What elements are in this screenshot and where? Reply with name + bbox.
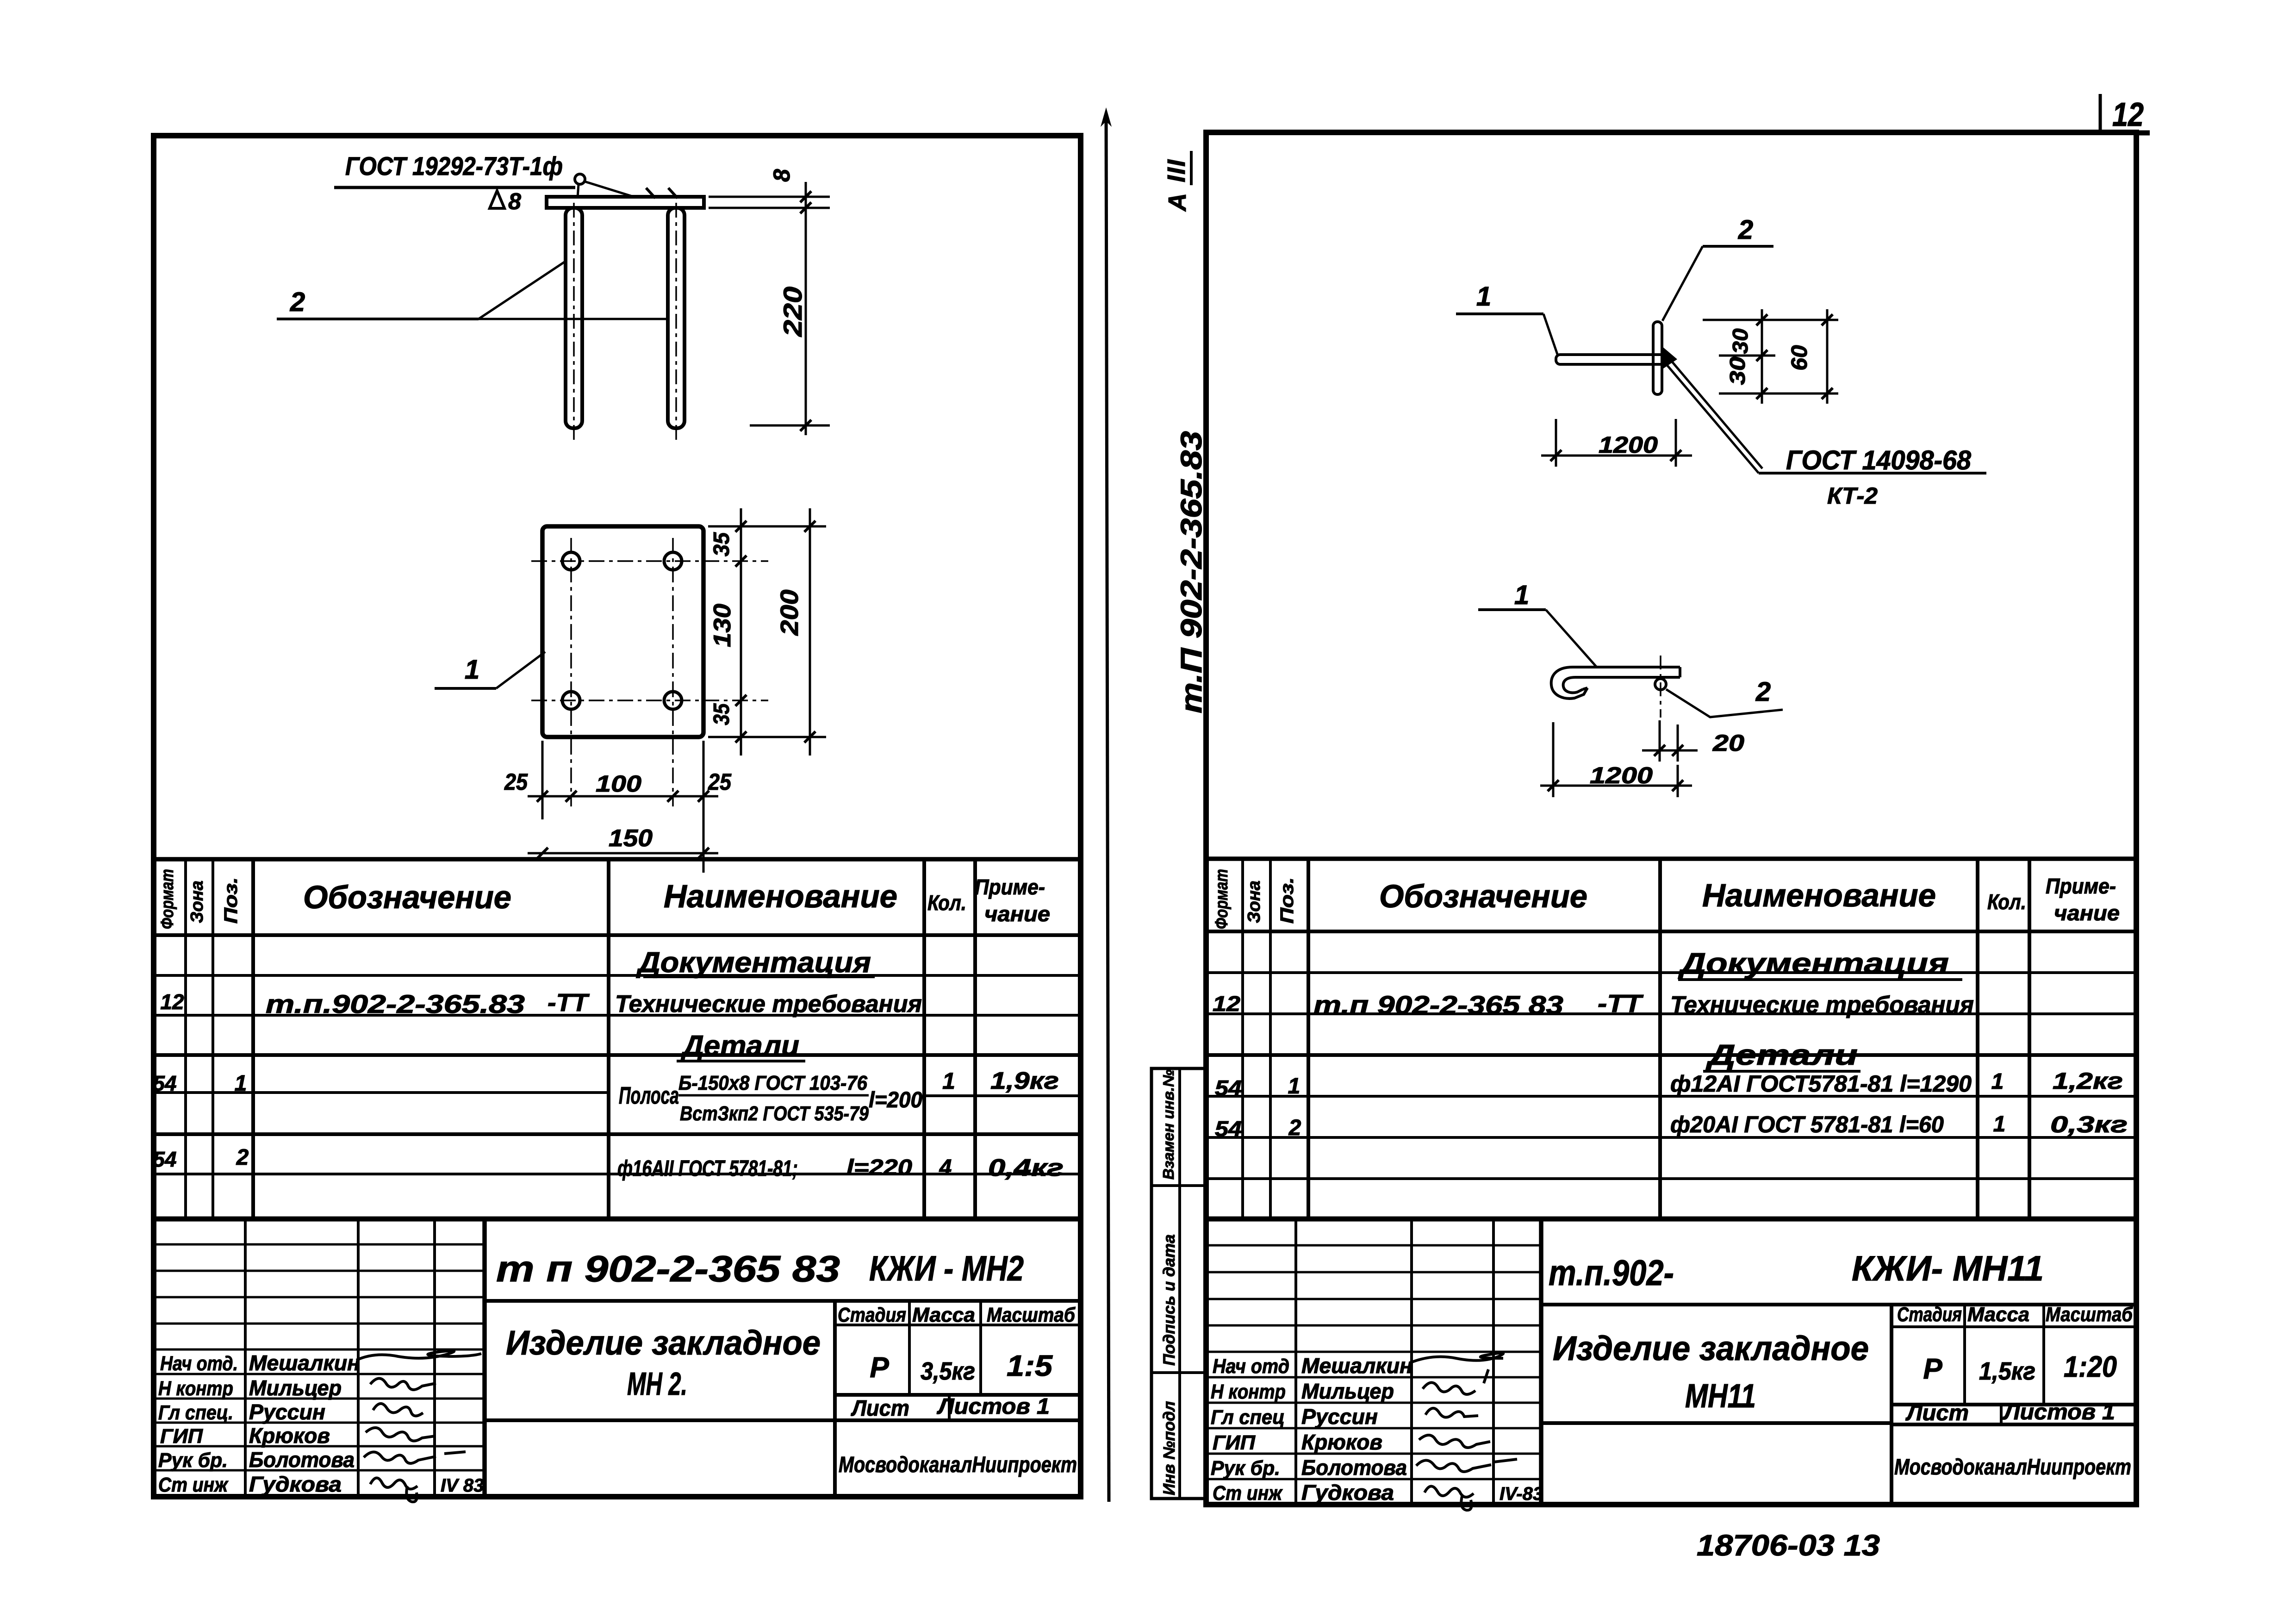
svg-text:Технические требования: Технические требования <box>615 991 922 1018</box>
svg-text:1: 1 <box>1288 1074 1300 1099</box>
dim ticks <box>800 191 811 202</box>
label 2 leader polyline <box>1666 689 1783 717</box>
svg-text:IV-83: IV-83 <box>1500 1484 1543 1504</box>
svg-text:Формат: Формат <box>158 869 177 929</box>
hook tip cap <box>1583 688 1587 689</box>
svg-text:Гудкова: Гудкова <box>1301 1480 1394 1505</box>
stadia header bottom <box>1892 1325 2136 1328</box>
svg-text:0,4кг: 0,4кг <box>988 1155 1064 1181</box>
signature label row lines <box>1206 1376 1541 1379</box>
svg-text:Нач отд: Нач отд <box>1213 1355 1289 1378</box>
plan bottom edge extension <box>708 736 826 738</box>
svg-text:Крюков: Крюков <box>1301 1430 1382 1454</box>
dim line 1200 <box>1540 785 1692 787</box>
anchor rod item 2 (left) <box>566 208 582 428</box>
svg-text:т.п 902-2-365 83: т.п 902-2-365 83 <box>1313 990 1563 1019</box>
svg-text:54: 54 <box>153 1147 176 1171</box>
svg-text:т п 902-2-365 83: т п 902-2-365 83 <box>496 1248 840 1289</box>
svg-text:1: 1 <box>1991 1069 2004 1094</box>
rod item 1 horizontal <box>1556 355 1664 364</box>
svg-text:30: 30 <box>1728 328 1752 354</box>
item 2 centerline <box>1660 656 1661 718</box>
label 2 leader <box>1662 246 1703 321</box>
signature scribbles <box>1410 1353 1503 1363</box>
svg-text:ГИП: ГИП <box>160 1425 203 1448</box>
plan right edge extension down <box>703 741 705 873</box>
svg-text:1,9кг: 1,9кг <box>990 1068 1059 1094</box>
svg-text:КЖИ- МН11: КЖИ- МН11 <box>1852 1249 2044 1288</box>
spec table verticals <box>184 859 187 1219</box>
signature upper row lines <box>1206 1244 1541 1247</box>
stadia values bottom <box>1892 1403 2136 1406</box>
label 1 underline <box>1456 312 1543 315</box>
svg-text:Обозначение: Обозначение <box>1379 878 1587 914</box>
anchor rod item 2 (right) <box>668 208 684 428</box>
plan top edge extension <box>708 525 826 528</box>
svg-text:12: 12 <box>1213 992 1240 1016</box>
svg-text:ГОСТ 14098-68: ГОСТ 14098-68 <box>1786 445 1972 475</box>
svg-text:Стадия: Стадия <box>1897 1303 1962 1326</box>
svg-text:МН11: МН11 <box>1685 1378 1756 1415</box>
svg-text:МосводоканалНиипроект: МосводоканалНиипроект <box>839 1453 1077 1477</box>
svg-text:20: 20 <box>1712 730 1744 756</box>
sheet frame right <box>1206 132 2136 1505</box>
anchor left centerline <box>573 203 575 441</box>
svg-text:1200: 1200 <box>1599 432 1658 458</box>
svg-text:Приме-: Приме- <box>975 875 1045 899</box>
rotated mark A III <box>1163 151 1191 212</box>
hole top-left <box>562 552 580 570</box>
ticks 1200 <box>1548 780 1559 791</box>
stadia table divider vertical <box>833 1301 837 1497</box>
plate item 1 plan <box>542 526 703 737</box>
signature table upper row lines <box>154 1243 485 1246</box>
svg-text:Гл спец: Гл спец <box>1211 1406 1285 1429</box>
svg-text:Масса: Масса <box>912 1304 975 1326</box>
svg-text:Листов 1: Листов 1 <box>2003 1400 2115 1424</box>
svg-text:Болотова: Болотова <box>1301 1455 1407 1480</box>
hole bottom-right <box>664 692 682 709</box>
svg-text:Формат: Формат <box>1212 869 1232 929</box>
svg-text:Нач отд.: Нач отд. <box>160 1352 238 1375</box>
weld symbol triangle 8 <box>490 191 504 208</box>
title block top line <box>154 1217 1081 1222</box>
stadia columns <box>908 1301 911 1395</box>
dim 220 bottom extension line <box>750 425 830 427</box>
svg-text:ф20АI ГОСТ 5781-81 l=60: ф20АI ГОСТ 5781-81 l=60 <box>1670 1112 1944 1137</box>
svg-text:Стадия: Стадия <box>838 1304 906 1326</box>
plate item 1 side view <box>547 197 704 208</box>
inventory strip box <box>1151 1068 1206 1499</box>
svg-text:Кол.: Кол. <box>1987 890 2026 914</box>
svg-text:Лист: Лист <box>851 1396 909 1421</box>
svg-text:Кол.: Кол. <box>927 891 966 915</box>
weld tick marks on plate <box>646 188 655 198</box>
svg-text:1: 1 <box>465 655 479 685</box>
stadia divider vertical <box>1890 1305 1893 1505</box>
plate item 2 vertical <box>1653 322 1662 394</box>
svg-text:25: 25 <box>504 769 528 795</box>
svg-text:60: 60 <box>1787 345 1812 370</box>
svg-text:Руссин: Руссин <box>1301 1405 1378 1429</box>
dim line 200 <box>809 508 811 756</box>
svg-text:1: 1 <box>235 1071 247 1096</box>
svg-text:1: 1 <box>1476 281 1491 312</box>
svg-text:220: 220 <box>778 287 807 337</box>
svg-text:35: 35 <box>709 532 734 556</box>
svg-text:Мешалкин: Мешалкин <box>249 1351 360 1375</box>
svg-text:Зона: Зона <box>187 881 207 923</box>
svg-text:1,5кг: 1,5кг <box>1979 1357 2035 1385</box>
svg-text:ГОСТ 19292-73Т-1ф: ГОСТ 19292-73Т-1ф <box>345 151 563 181</box>
svg-text:ГИП: ГИП <box>1213 1431 1256 1454</box>
label 2 underline <box>277 318 479 320</box>
svg-text:т.п.902-: т.п.902- <box>1549 1252 1674 1293</box>
svg-text:Документация: Документация <box>1678 948 1949 980</box>
svg-text:КЖИ - МН2: КЖИ - МН2 <box>869 1249 1024 1288</box>
svg-text:Детали: Детали <box>1705 1039 1858 1071</box>
svg-text:Масштаб: Масштаб <box>987 1304 1076 1326</box>
svg-text:Зона: Зона <box>1244 881 1264 923</box>
signature table verticals <box>244 1219 247 1497</box>
svg-text:Масса: Масса <box>1967 1303 2029 1326</box>
svg-text:2: 2 <box>236 1145 249 1170</box>
svg-text:Наименование: Наименование <box>1702 877 1936 913</box>
leader circle node <box>575 174 585 184</box>
svg-text:12: 12 <box>160 990 184 1014</box>
hole bottom-left <box>562 692 580 709</box>
label 1 underline <box>435 687 496 690</box>
svg-text:III: III <box>1163 159 1190 182</box>
ticks 60 <box>1822 314 1833 325</box>
title block top line <box>1206 1217 2136 1222</box>
dim 1200 extensions <box>1552 722 1555 797</box>
svg-text:2: 2 <box>1288 1116 1301 1140</box>
svg-text:т.п.902-2-365.83: т.п.902-2-365.83 <box>266 989 525 1018</box>
svg-text:54: 54 <box>153 1071 176 1095</box>
svg-text:12: 12 <box>2112 96 2144 133</box>
svg-text:Гл спец.: Гл спец. <box>158 1401 233 1424</box>
signature verticals <box>1294 1219 1297 1505</box>
svg-text:Изделие закладное: Изделие закладное <box>1553 1329 1869 1368</box>
weld fillet <box>1662 346 1677 369</box>
svg-text:IV 83: IV 83 <box>441 1475 484 1496</box>
signature label row lines <box>154 1373 485 1375</box>
ticks on 25/100/25 <box>537 791 548 802</box>
dim line 30/30 <box>1761 309 1763 404</box>
svg-text:Рук бр.: Рук бр. <box>158 1449 228 1472</box>
centerline left holes <box>570 538 572 806</box>
svg-text:1:5: 1:5 <box>1007 1349 1053 1382</box>
svg-text:1,2кг: 1,2кг <box>2053 1068 2123 1094</box>
svg-text:-ТТ: -ТТ <box>1598 990 1644 1018</box>
spec table top line <box>154 857 1081 862</box>
svg-text:1: 1 <box>942 1068 955 1094</box>
svg-text:Обозначение: Обозначение <box>303 879 511 915</box>
centerline top holes <box>531 560 768 562</box>
svg-text:ВстЗкп2 ГОСТ 535-79: ВстЗкп2 ГОСТ 535-79 <box>680 1102 869 1125</box>
svg-text:Лист: Лист <box>1905 1401 1969 1425</box>
svg-text:0,3кг: 0,3кг <box>2050 1112 2128 1137</box>
label 2 leader to left anchor <box>479 261 566 319</box>
svg-text:8: 8 <box>508 188 521 214</box>
svg-text:Мильцер: Мильцер <box>249 1376 342 1400</box>
svg-text:54: 54 <box>1215 1117 1242 1141</box>
label 2 underline <box>1703 245 1773 248</box>
ticks on 200 <box>804 521 815 532</box>
svg-text:1:20: 1:20 <box>2064 1350 2117 1383</box>
ticks 20 <box>1654 745 1665 756</box>
svg-text:Взамен инв.№: Взамен инв.№ <box>1160 1069 1177 1180</box>
label 1 leader <box>496 652 545 688</box>
name cell bottom <box>485 1418 835 1422</box>
svg-text:Н контр: Н контр <box>1211 1380 1286 1403</box>
dim 8 extension lines <box>709 196 830 198</box>
svg-text:Изделие закладное: Изделие закладное <box>506 1324 821 1362</box>
anchor item 2 end circle <box>1655 679 1666 690</box>
svg-text:Полоса: Полоса <box>619 1082 679 1109</box>
svg-text:Инв №подл: Инв №подл <box>1160 1401 1178 1495</box>
svg-text:КТ-2: КТ-2 <box>1827 483 1878 509</box>
dim line 220 vertical <box>805 182 807 435</box>
ticks on 35/130/35 <box>735 521 747 532</box>
hole top-right <box>664 552 682 570</box>
svg-text:2: 2 <box>1755 677 1771 707</box>
ticks on 150 <box>537 848 548 859</box>
inventory strip inner vertical <box>1178 1068 1181 1499</box>
dim 30/30/60 extension bottom <box>1719 393 1838 395</box>
svg-text:Б-150х8 ГОСТ 103-76: Б-150х8 ГОСТ 103-76 <box>678 1072 867 1094</box>
svg-text:l=220: l=220 <box>846 1156 912 1180</box>
svg-text:3,5кг: 3,5кг <box>921 1357 975 1385</box>
stadia columns <box>1963 1305 1966 1405</box>
svg-text:Ст инж: Ст инж <box>158 1474 229 1496</box>
list row bottom <box>1892 1423 2136 1426</box>
spec horizontals <box>1206 930 2136 933</box>
svg-text:8: 8 <box>769 169 795 182</box>
label 1 underline <box>1478 608 1546 611</box>
hook rod item 1 outline <box>1551 667 1680 699</box>
svg-text:Р: Р <box>870 1352 889 1384</box>
svg-text:Документация: Документация <box>636 947 871 979</box>
svg-text:т.П 902-2-365.83: т.П 902-2-365.83 <box>1175 431 1208 713</box>
weld designation leader double line <box>1665 363 1759 473</box>
dim line 1200 <box>1541 455 1692 457</box>
leader underline of GOST label <box>334 186 575 189</box>
plan left edge extension down <box>541 741 544 819</box>
dim line 150 <box>528 852 718 855</box>
svg-text:МН 2.: МН 2. <box>627 1366 687 1402</box>
svg-text:1: 1 <box>1514 580 1529 610</box>
svg-text:Руссин: Руссин <box>249 1400 325 1424</box>
svg-text:Рук бр.: Рук бр. <box>1211 1457 1280 1480</box>
stadia header bottom <box>835 1324 1081 1326</box>
designation row bottom <box>1541 1303 2136 1306</box>
label 1 leader <box>1546 610 1597 667</box>
hook rod right end cap <box>1679 667 1681 677</box>
svg-text:Детали: Детали <box>680 1030 799 1062</box>
signature scribbles <box>356 1351 481 1360</box>
svg-text:4: 4 <box>939 1156 952 1180</box>
inventory strip dividers <box>1151 1184 1206 1187</box>
svg-text:25: 25 <box>708 769 732 795</box>
centerline bottom holes <box>531 700 768 701</box>
spec verticals <box>1241 859 1244 1219</box>
dim line 35/130/35 <box>740 508 742 756</box>
dim line 25/100/25 <box>528 795 718 798</box>
svg-text:Поз.: Поз. <box>1277 877 1297 924</box>
svg-text:150: 150 <box>609 825 653 852</box>
svg-text:МосводоканалНиипроект: МосводоканалНиипроект <box>1894 1455 2131 1480</box>
svg-text:2: 2 <box>1738 215 1753 245</box>
svg-text:Ст инж: Ст инж <box>1213 1482 1283 1505</box>
svg-text:Гудкова: Гудкова <box>249 1472 342 1496</box>
svg-text:Болотова: Болотова <box>249 1448 355 1472</box>
label 2 leader to right anchor <box>479 318 668 320</box>
dim line 20 <box>1642 750 1698 752</box>
svg-text:Листов 1: Листов 1 <box>937 1394 1050 1419</box>
svg-text:Приме-: Приме- <box>2046 874 2116 898</box>
svg-text:130: 130 <box>709 604 736 647</box>
sheet frame left <box>154 136 1081 1497</box>
list row divider <box>2000 1405 2003 1424</box>
list row divider <box>948 1395 951 1420</box>
svg-text:l=200: l=200 <box>869 1088 922 1112</box>
page number tick <box>2099 94 2102 131</box>
ticks 30/30 <box>1756 314 1767 325</box>
svg-text:100: 100 <box>596 771 641 797</box>
leader diagonal to weld <box>585 181 632 196</box>
svg-text:Масштаб: Масштаб <box>2046 1303 2134 1326</box>
list row bottom <box>835 1418 1081 1422</box>
dim line 60 <box>1826 309 1829 404</box>
svg-text:Технические требования: Технические требования <box>1670 992 1974 1018</box>
centerline right holes <box>672 538 674 806</box>
svg-text:200: 200 <box>776 590 803 636</box>
weld designation underline <box>1759 472 1986 475</box>
stadia values bottom <box>835 1393 1081 1397</box>
svg-text:1200: 1200 <box>1590 762 1653 788</box>
svg-text:ф16АII ГОСТ 5781-81;: ф16АII ГОСТ 5781-81; <box>617 1156 798 1181</box>
svg-text:Поз.: Поз. <box>221 877 241 924</box>
svg-text:54: 54 <box>1215 1076 1242 1100</box>
divider top arrowhead <box>1101 107 1112 127</box>
svg-text:Мильцер: Мильцер <box>1301 1379 1394 1403</box>
svg-text:35: 35 <box>709 703 734 725</box>
svg-text:2: 2 <box>290 287 305 317</box>
anchor right centerline <box>675 203 677 441</box>
leader drop to plate <box>578 184 579 198</box>
dim 30/30/60 extension top <box>1703 319 1838 321</box>
sheet divider line <box>1106 116 1109 1502</box>
svg-text:чание: чание <box>2054 901 2120 925</box>
svg-text:Мешалкин: Мешалкин <box>1301 1354 1412 1378</box>
svg-text:30: 30 <box>1725 356 1749 385</box>
label 1 leader <box>1543 314 1558 356</box>
designation row bottom <box>485 1299 1081 1303</box>
spec table top line <box>1206 856 2136 861</box>
frame top-right overhang <box>2134 131 2150 136</box>
svg-text:А: А <box>1164 193 1191 212</box>
ticks 1200 <box>1550 450 1562 461</box>
svg-text:-ТТ: -ТТ <box>548 989 590 1017</box>
svg-text:Крюков: Крюков <box>249 1424 330 1448</box>
spec table horizontals <box>154 933 1081 937</box>
svg-text:Наименование: Наименование <box>664 878 897 914</box>
svg-text:18706-03 13: 18706-03 13 <box>1697 1529 1880 1562</box>
svg-text:Подпись и дата: Подпись и дата <box>1160 1234 1178 1366</box>
svg-text:ф12АI ГОСТ5781-81 l=1290: ф12АI ГОСТ5781-81 l=1290 <box>1670 1071 1972 1097</box>
svg-text:Н контр: Н контр <box>158 1377 233 1400</box>
svg-text:1: 1 <box>1993 1112 2006 1137</box>
name cell bottom <box>1541 1421 1892 1425</box>
dim 30/30/60 extension middle <box>1719 355 1775 357</box>
svg-text:Р: Р <box>1923 1353 1942 1385</box>
svg-text:чание: чание <box>984 902 1050 926</box>
dim 20 extensions <box>1659 720 1661 762</box>
dim 1200 extensions <box>1555 419 1557 467</box>
